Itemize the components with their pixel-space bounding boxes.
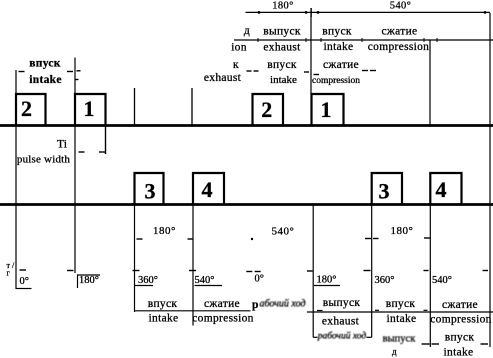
wire column line x490	[489, 13, 491, 347]
svg-text:0°: 0°	[20, 276, 29, 287]
svg-text:exhaust: exhaust	[263, 42, 301, 54]
svg-text:compression: compression	[192, 313, 253, 325]
svg-text:абочий ход: абочий ход	[260, 299, 306, 310]
dashes bottom row	[422, 343, 430, 345]
svg-text:540°: 540°	[390, 1, 412, 12]
svg-text:1: 1	[321, 97, 332, 122]
svg-text:4: 4	[436, 177, 447, 202]
svg-text:1: 1	[84, 96, 95, 121]
pulse 1	[75, 94, 106, 126]
bracket feet rabochiy hod box	[313, 336, 317, 338]
bracket 180deg left	[78, 275, 101, 288]
wire extension line x311 top	[310, 8, 312, 94]
svg-text:впуск: впуск	[445, 332, 475, 344]
dash row C group	[19, 71, 25, 73]
underline 180 right	[314, 285, 340, 287]
table rule y40	[234, 39, 493, 41]
svg-text:360°: 360°	[138, 275, 158, 286]
svg-text:сжатие: сжатие	[323, 59, 359, 71]
svg-text:180°: 180°	[391, 225, 414, 237]
svg-text:выпуск: выпуск	[383, 334, 417, 345]
pulse 2 second	[253, 94, 284, 126]
svg-text:540°: 540°	[195, 275, 215, 286]
svg-text:впуск: впуск	[148, 298, 178, 310]
bottom table rule A	[135, 310, 251, 312]
bracket foot 0deg	[16, 288, 32, 290]
svg-text:2: 2	[261, 97, 272, 122]
svg-text:3: 3	[145, 179, 156, 204]
svg-text:compression: compression	[430, 314, 491, 326]
svg-text:ion: ion	[231, 42, 247, 54]
svg-text:intake: intake	[324, 41, 354, 53]
svg-text:180°: 180°	[153, 225, 176, 237]
wire extension line x430 lower	[429, 205, 431, 348]
pulse 3	[135, 173, 164, 205]
svg-text:д: д	[392, 347, 397, 357]
svg-text:сжатие: сжатие	[204, 298, 240, 310]
svg-text:0°: 0°	[255, 274, 264, 285]
pulse 4	[193, 173, 224, 205]
dash dim row mid	[137, 238, 143, 240]
svg-text:сжатие: сжатие	[442, 299, 478, 311]
svg-text:впуск: впуск	[322, 26, 352, 38]
svg-text:intake: intake	[387, 313, 417, 325]
svg-text:exhaust: exhaust	[322, 316, 360, 328]
svg-text:д: д	[244, 25, 250, 37]
rule ticks	[257, 38, 259, 42]
svg-text:впуск: впуск	[29, 58, 61, 70]
svg-text:exhaust: exhaust	[204, 72, 242, 84]
wire extension line x16	[15, 70, 17, 289]
svg-text:Ti: Ti	[57, 137, 68, 151]
svg-text:intake: intake	[29, 74, 61, 86]
dimension tick x311	[310, 8, 312, 17]
svg-text:рабочий ход: рабочий ход	[317, 330, 367, 341]
arrow dots top dimension	[258, 11, 487, 14]
arrow dot mid	[251, 238, 253, 240]
svg-text:3: 3	[379, 179, 390, 204]
pulse 3 second	[372, 173, 402, 205]
svg-text:intake: intake	[270, 74, 297, 86]
svg-text:выпуск: выпуск	[323, 297, 361, 309]
pulse 4 second	[430, 173, 461, 205]
underline 540 left	[195, 285, 223, 287]
svg-text:180°: 180°	[317, 275, 337, 286]
svg-text:впуск: впуск	[267, 59, 297, 71]
svg-text:выпуск: выпуск	[263, 26, 301, 38]
pulse 2	[16, 94, 46, 126]
svg-text:intake: intake	[149, 313, 179, 325]
dashes on rule B	[317, 310, 323, 312]
svg-text:compression: compression	[368, 41, 429, 53]
svg-text:intake: intake	[444, 347, 474, 358]
dimension line top	[246, 11, 491, 13]
svg-text:4: 4	[202, 177, 213, 202]
wire column line x430	[429, 40, 431, 126]
svg-text:180°: 180°	[272, 1, 294, 12]
bottom table rule B	[307, 311, 493, 313]
wire extension line x193 lower	[192, 205, 194, 326]
svg-text:180°: 180°	[79, 275, 99, 286]
svg-text:р: р	[252, 299, 258, 311]
svg-text:compression: compression	[312, 76, 360, 86]
dash degree row	[20, 269, 27, 271]
svg-text:360°: 360°	[375, 275, 395, 286]
svg-text:впуск: впуск	[386, 298, 416, 310]
svg-text:к: к	[233, 59, 239, 71]
svg-text:сжатие: сжатие	[382, 26, 418, 38]
wire upper baseline	[0, 124, 493, 127]
tick 180deg upper	[134, 88, 136, 126]
underline 360 left	[135, 285, 154, 287]
wire extension line x371 lower	[371, 205, 373, 338]
svg-text:2: 2	[21, 96, 32, 121]
pulse 1 second	[312, 94, 344, 126]
svg-text:540°: 540°	[432, 275, 452, 286]
wire extension line x134 lower	[134, 205, 136, 313]
wire extension line x313 lower	[312, 205, 314, 338]
tick 360deg upper	[191, 88, 193, 126]
wire lower baseline	[0, 203, 493, 206]
svg-text:pulse width: pulse width	[17, 154, 71, 166]
dash Ti group	[79, 151, 85, 153]
wire extension line x75	[74, 58, 76, 274]
svg-text:540°: 540°	[272, 226, 295, 238]
wire pulse1 right edge extension	[105, 126, 107, 155]
